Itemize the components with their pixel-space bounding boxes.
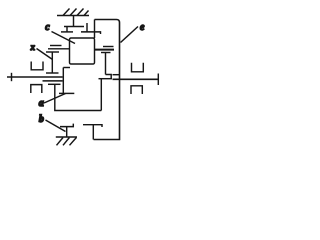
gear bar lower-left (48, 83, 61, 85)
wire: step under gear c box (63, 67, 70, 69)
bearing bracket above right shaft (132, 63, 144, 72)
shaft x (left input shaft) (7, 76, 63, 78)
wire: leader line c (52, 32, 76, 44)
gear bar bottom-right (83, 125, 102, 127)
gear bar right (top) (81, 32, 101, 34)
wire: vertical right side of gear a box (100, 79, 102, 111)
svg-text:x: x (30, 42, 36, 52)
wire: support stem from top ground (73, 16, 75, 27)
shaft end tick right (157, 74, 159, 86)
svg-text:c: c (45, 22, 50, 33)
gear mesh step inside e (106, 75, 112, 79)
wire: leader line e (121, 27, 139, 43)
ground (bottom fixed frame hatch) (56, 137, 77, 145)
wire: short bar left of right edge (113, 74, 120, 76)
gear bar lower inside e (99, 78, 113, 80)
bearing tick right on shaft c (86, 23, 88, 32)
gear a frame (left edge + bottom) (55, 84, 102, 110)
svg-text:a: a (39, 98, 44, 109)
wire: leader line x (37, 49, 53, 60)
wire: stem to housing bottom (92, 125, 94, 140)
wire: top tee bar (64, 26, 84, 28)
bearing bracket below right shaft (131, 86, 142, 94)
wire: carrier x stem (51, 52, 53, 73)
ground (top fixed frame hatch) (57, 9, 89, 16)
carrier x bottom bar (46, 72, 59, 74)
wire: planet shaft inside e (105, 53, 107, 75)
gear c (box) (70, 38, 95, 64)
bearing tick left on shaft c (66, 27, 68, 32)
shaft e (right output shaft) (113, 78, 159, 80)
gear mesh c-e upper bars (103, 46, 114, 48)
wire: shaft a vertical (62, 68, 64, 94)
shaft end tick (11, 73, 13, 81)
svg-text:e: e (140, 22, 145, 33)
bearing bracket above left shaft (31, 62, 43, 70)
ring gear e (housing rectangle) (94, 20, 120, 140)
gear bar on shaft a (43, 80, 63, 82)
svg-text:b: b (39, 114, 44, 125)
bearing bracket below left shaft (31, 85, 42, 93)
wire: leader line b (46, 120, 66, 132)
wire: vertical above gear c box (94, 20, 96, 39)
gear x mesh bars (50, 45, 62, 47)
wire: shaft b stem (66, 127, 68, 137)
wire: leader line a (44, 94, 66, 104)
gear bar left (top) (61, 31, 73, 33)
gear a bottom bar (59, 92, 74, 94)
gear b bar (60, 124, 73, 127)
